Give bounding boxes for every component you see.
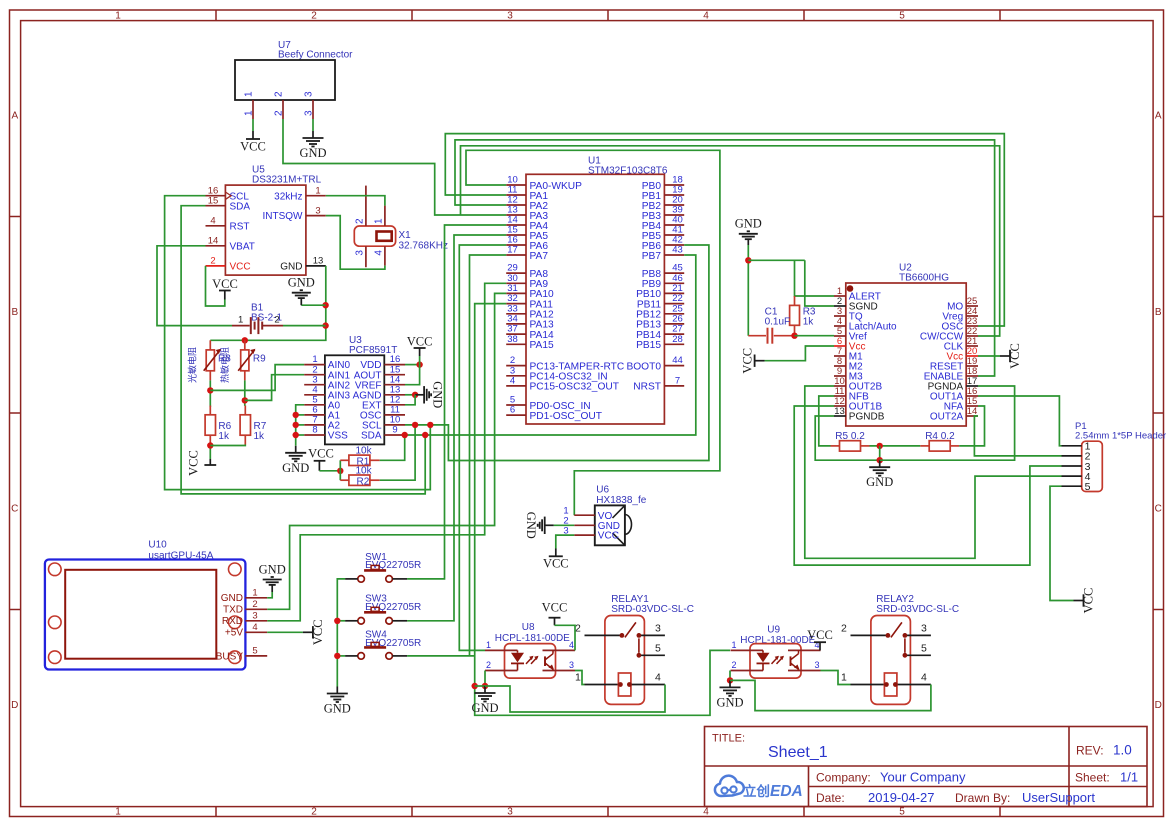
wire U2 ALERT up (795, 260, 835, 296)
svg-text:VCC: VCC (542, 600, 568, 614)
pin 19 RESET of U2 (966, 365, 978, 367)
pin 2 SGND of U2 (834, 305, 846, 307)
contact lever of RELAY2 (886, 633, 891, 638)
wire R2 right to SCL row (380, 425, 415, 480)
pin 42 PB6 of U1 (664, 244, 684, 246)
svg-text:3: 3 (507, 807, 513, 818)
pin 17 PA7 of U1 (506, 254, 526, 256)
arrow of R8 (204, 350, 221, 371)
wire PGNDB to GND node (815, 416, 880, 460)
wire U6 VCC to flag (556, 535, 575, 548)
wire U8 pin2 to GND (484, 671, 486, 687)
wire U3 SCL to U1 PB6 (405, 245, 709, 461)
lens arc of U6 (625, 515, 632, 535)
svg-text:44: 44 (672, 355, 683, 366)
pin 13 GND of U5 (306, 265, 326, 267)
switch SW3 EVQ22705R (358, 618, 365, 625)
svg-text:2: 2 (274, 91, 285, 97)
corner mark bottom of U6 (613, 533, 625, 545)
pin 3 TQ of U2 (834, 315, 846, 317)
junction R5-R4 gnd (877, 443, 883, 449)
LED of U9 (762, 650, 764, 652)
svg-text:1: 1 (575, 672, 581, 684)
net flag VCC at U5 pin2 (224, 291, 226, 300)
wire U1 PA0 to U6 VO (466, 150, 720, 515)
pin1 dot of U2 (847, 285, 854, 292)
pin 5 of RELAY1 (639, 654, 665, 656)
svg-text:VCC: VCC (212, 277, 238, 291)
net flag VCC at U7 pin1 (252, 131, 254, 139)
pin 11 PA1 of U1 (506, 194, 526, 196)
light arrows of U9 (772, 657, 779, 664)
wire U2 SGND up (805, 260, 834, 306)
svg-text:SRD-03VDC-SL-C: SRD-03VDC-SL-C (611, 604, 694, 615)
pin 5 BUSY of U10 (245, 655, 267, 657)
svg-text:VCC: VCC (1008, 343, 1022, 369)
wire gnd row to SGND (748, 259, 805, 261)
svg-text:13: 13 (834, 406, 845, 417)
net flag GND under U9 (729, 680, 731, 687)
svg-text:2: 2 (274, 110, 285, 116)
svg-text:Sheet:: Sheet: (1075, 771, 1110, 785)
net flag GND at U6 (545, 524, 554, 526)
svg-text:VCC: VCC (1082, 588, 1096, 614)
pin 19 PB1 of U1 (664, 194, 684, 196)
svg-text:Sheet_1: Sheet_1 (768, 744, 828, 761)
svg-text:3: 3 (355, 250, 366, 256)
battery B1 (232, 325, 250, 327)
pin 1 32kHz of U5 (306, 195, 326, 197)
svg-text:17: 17 (507, 245, 518, 256)
pin 3 PC14-OSC32_IN of U1 (506, 375, 526, 377)
pin 24 Vreg of U2 (966, 315, 978, 317)
svg-text:3: 3 (507, 10, 513, 21)
wire U9 pin3 to relay2 pin1 (821, 671, 851, 685)
light arrows of U8 (526, 657, 533, 664)
pin 18 PB0 of U1 (664, 184, 684, 186)
wire R9 bottom node (244, 380, 246, 405)
wire U5 32kHz to X1 pin1 (326, 196, 385, 206)
svg-text:2: 2 (311, 10, 317, 21)
svg-text:RXD: RXD (222, 616, 243, 627)
mounting hole of U10 (229, 651, 242, 664)
svg-text:GND: GND (280, 262, 302, 273)
resistor R3 (794, 296, 796, 305)
pin 3 AIN2 of U3 (304, 384, 325, 386)
svg-text:HCPL-181-00DE: HCPL-181-00DE (495, 633, 570, 644)
net flag GND under U3 (295, 446, 297, 453)
switch SW4 EVQ22705R (358, 653, 365, 660)
optocoupler U9 HCPL-181-00DE (750, 644, 801, 679)
pin 3 VCC of U6 (574, 534, 595, 536)
pin 41 PB5 of U1 (664, 234, 684, 236)
svg-text:GND: GND (259, 563, 286, 577)
wire gnd node down (879, 446, 881, 460)
pin 6 Vcc of U2 (834, 345, 846, 347)
pin 1 of RELAY2 (851, 684, 931, 686)
svg-text:PGNDB: PGNDB (849, 412, 885, 423)
svg-text:5: 5 (899, 807, 905, 818)
svg-text:5: 5 (1085, 481, 1091, 493)
junction SW4 gnd (334, 653, 340, 659)
svg-text:43: 43 (672, 245, 683, 256)
svg-text:2: 2 (252, 599, 257, 610)
svg-text:28: 28 (672, 334, 683, 345)
pin 3 INTSQW of U5 (306, 215, 326, 217)
svg-text:PA7: PA7 (530, 251, 549, 262)
wire SW4 to relay2 opto net (407, 655, 475, 657)
svg-text:EDA: EDA (770, 783, 803, 800)
relay RELAY2 SRD-03VDC-SL-C (871, 616, 911, 705)
svg-text:1/1: 1/1 (1120, 770, 1138, 785)
svg-text:C: C (1155, 504, 1162, 515)
pin 34 PA13 of U1 (506, 323, 526, 325)
wire U1 PA10 to U10 TXD (267, 293, 506, 609)
svg-text:32kHz: 32kHz (274, 191, 302, 202)
svg-text:2: 2 (731, 660, 736, 670)
svg-text:GND: GND (524, 512, 538, 539)
svg-text:SDA: SDA (361, 431, 382, 442)
wire U10 +5V to VCC (267, 631, 303, 633)
pin 21 CLK of U2 (966, 345, 978, 347)
pin 14 PA4 of U1 (506, 224, 526, 226)
svg-text:VCC: VCC (230, 262, 251, 273)
pin 1 VO of U6 (574, 514, 595, 516)
wire U2 OUT1A to P1 pin1 (978, 396, 1062, 446)
svg-text:VCC: VCC (308, 447, 334, 461)
wire U5 VBAT to B1 pin1 (157, 246, 232, 326)
pin 14 VREF of U3 (384, 384, 405, 386)
pin 13 AGND of U3 (384, 394, 405, 396)
pin 3 of X1 (365, 246, 367, 267)
junction R8-R6 node (207, 387, 213, 393)
svg-text:2: 2 (355, 218, 366, 224)
resistor R7 (244, 406, 246, 415)
coil of RELAY2 (884, 673, 897, 696)
pin 12 PA2 of U1 (506, 204, 526, 206)
pin 8 M2 of U2 (834, 365, 846, 367)
pin 1 of RELAY1 (585, 684, 665, 686)
svg-text:U10: U10 (148, 540, 167, 551)
svg-text:GND: GND (716, 695, 743, 709)
pin 22 PB11 of U1 (664, 303, 684, 305)
pin 30 PA9 of U1 (506, 282, 526, 284)
svg-text:VCC: VCC (407, 335, 433, 349)
pin 26 PB13 of U1 (664, 323, 684, 325)
pin 12 EXT of U3 (384, 404, 405, 406)
svg-text:5: 5 (252, 646, 257, 657)
junction ALERT-SGND gnd (745, 257, 751, 263)
svg-text:VBAT: VBAT (230, 241, 255, 252)
resistor R5 (831, 445, 840, 447)
pin 11 NFB of U2 (834, 395, 846, 397)
wire U2 Vcc pin6 to VCC flag (765, 346, 834, 361)
svg-text:7: 7 (675, 376, 680, 387)
svg-text:PB7: PB7 (642, 251, 662, 262)
resistor R2 (340, 479, 349, 481)
pin 10 OUT2B of U2 (834, 385, 846, 387)
pin 15 PA5 of U1 (506, 234, 526, 236)
connector U7 (235, 60, 335, 100)
junction R9-R7 node (242, 397, 248, 403)
IR receiver U6 HX1838_fe (595, 505, 625, 545)
pin 37 PA14 of U1 (506, 333, 526, 335)
svg-text:10k: 10k (356, 465, 373, 476)
wire P1 pin5 to VCC (1050, 486, 1074, 600)
pin 2 AIN1 of U3 (304, 374, 325, 376)
pin 7 M1 of U2 (834, 355, 846, 357)
wire gnd link U8 (475, 685, 485, 687)
wire switch gnd chain (337, 579, 345, 687)
wire U3 VREF to VDD node (405, 365, 420, 385)
svg-text:立创: 立创 (743, 783, 770, 799)
pin 4 AIN3 of U3 (304, 394, 325, 396)
pin 2 of RELAY1 (585, 634, 622, 636)
wire U7 pin1 to VCC (252, 119, 254, 131)
wire R8 bottom node (209, 380, 211, 407)
junction A1 (293, 412, 299, 418)
junction gnd below R5 (877, 457, 883, 463)
wire U8 gnd to relay1 pin4 (485, 685, 665, 713)
driver U2 TB6600HG (846, 283, 966, 426)
svg-text:Company:: Company: (816, 771, 871, 785)
pin 3 of P1 (1062, 465, 1082, 467)
svg-text:4: 4 (374, 250, 385, 256)
pin 25 MO of U2 (966, 305, 978, 307)
pin 1 ALERT of U2 (834, 295, 846, 297)
svg-text:4: 4 (921, 672, 927, 684)
svg-text:RST: RST (230, 221, 250, 232)
net flag VCC under U6 (555, 549, 557, 557)
svg-text:VCC: VCC (598, 531, 619, 542)
junction Vref node (791, 333, 797, 339)
pin 31 PA10 of U1 (506, 292, 526, 294)
svg-text:OUT2A: OUT2A (930, 412, 964, 423)
pin 40 PB4 of U1 (664, 224, 684, 226)
pin 16 VDD of U3 (384, 364, 405, 366)
pin 4 of U8 (543, 649, 576, 651)
net flag GND under U8 (484, 686, 486, 693)
svg-text:D: D (11, 700, 18, 711)
svg-text:1: 1 (486, 640, 491, 650)
resistor R4 (920, 445, 929, 447)
svg-text:0.1uF: 0.1uF (765, 317, 791, 328)
pin 1 of U9 (731, 649, 764, 651)
svg-text:GND: GND (299, 146, 326, 160)
svg-text:2019-04-27: 2019-04-27 (868, 790, 935, 805)
svg-text:GND: GND (735, 216, 762, 230)
svg-text:9: 9 (392, 425, 397, 436)
svg-text:14: 14 (208, 236, 219, 247)
svg-text:INTSQW: INTSQW (263, 211, 304, 222)
LED of U8 (517, 650, 519, 652)
svg-text:GND: GND (866, 475, 893, 489)
pin 9 M3 of U2 (834, 375, 846, 377)
svg-text:1: 1 (238, 314, 243, 325)
wire U3 EXT to AGND node (405, 395, 415, 405)
net flag GND under U2 (879, 460, 881, 467)
svg-text:4: 4 (210, 216, 215, 227)
wire Vref node to pin5 (795, 335, 835, 337)
wire U9 gnd to relay2 pin4 (730, 680, 931, 710)
pin 46 PB9 of U1 (664, 282, 684, 284)
svg-text:3: 3 (569, 660, 574, 670)
pin 14 OUT2A of U2 (966, 415, 978, 417)
pin 4 RST of U5 (206, 225, 226, 227)
pin 8 VSS of U3 (304, 434, 325, 436)
wire U1 PA2 to U2 ENABLE (455, 140, 995, 376)
pin 18 ENABLE of U2 (966, 375, 978, 377)
pin 6 A1 of U3 (304, 414, 325, 416)
pin 16 PA6 of U1 (506, 244, 526, 246)
pin 3 of U8 (543, 670, 576, 672)
pin 21 PB10 of U1 (664, 292, 684, 294)
resistor R6 (209, 406, 211, 415)
junction SDA 1 (402, 432, 408, 438)
svg-text:R2: R2 (357, 476, 370, 487)
svg-text:3: 3 (921, 622, 927, 634)
svg-text:BUSY: BUSY (216, 651, 244, 662)
thermistor R9 (244, 340, 246, 350)
pin 1 of U7 (252, 100, 254, 119)
pin 16 SCL of U5 (206, 195, 226, 197)
wire U2 NFA to R4 right (959, 406, 984, 446)
relay RELAY1 SRD-03VDC-SL-C (605, 616, 645, 705)
pin 1 of P1 (1062, 445, 1082, 447)
svg-text:5: 5 (921, 642, 927, 654)
svg-text:PB15: PB15 (636, 340, 661, 351)
net flag GND under switches (336, 687, 338, 694)
wire R6 bottom to VCC (209, 445, 211, 460)
pin 2 of RELAY2 (851, 634, 888, 636)
mounting hole of U10 (229, 616, 242, 629)
pin 6 PD1-OSC_OUT of U1 (506, 414, 526, 416)
svg-text:2: 2 (486, 660, 491, 670)
MCU U1 STM32F103C8T6 (526, 174, 664, 424)
svg-text:GND: GND (282, 461, 309, 475)
wire U5 VCC to flag (206, 266, 225, 306)
wire U1 PA7 to SW4 row (470, 255, 507, 656)
pin 32 PA11 of U1 (506, 303, 526, 305)
svg-text:VCC: VCC (187, 450, 201, 476)
pin 3 of RELAY2 (905, 634, 931, 636)
mounting hole of U10 (49, 651, 62, 664)
svg-text:A: A (11, 111, 18, 122)
pin 1 GND of U10 (245, 597, 267, 599)
svg-text:1: 1 (252, 587, 257, 598)
junction VDD node (416, 361, 422, 367)
wire U3 SDA to U1 PB7 (405, 255, 696, 435)
svg-text:1: 1 (115, 10, 121, 21)
svg-text:4: 4 (655, 672, 661, 684)
svg-text:GND: GND (324, 702, 351, 716)
svg-text:DS3231M+TRL: DS3231M+TRL (252, 174, 322, 185)
wire U1 PA6 to U8 pin1 (459, 245, 506, 650)
pin 12 OUT1B of U2 (834, 405, 846, 407)
svg-text:1k: 1k (218, 431, 230, 442)
pin 2 of U9 (731, 670, 764, 672)
svg-text:1: 1 (115, 807, 121, 818)
svg-text:3: 3 (304, 110, 315, 116)
svg-text:GND: GND (431, 381, 445, 408)
pin 2 GND of U6 (574, 524, 595, 526)
pin 2 TXD of U10 (245, 608, 267, 610)
wire U5 SDA net (181, 206, 425, 494)
wire U5 INTSQW to X1 pin4 (326, 216, 385, 270)
svg-text:13: 13 (313, 256, 324, 267)
wire R9 node to U3 AIN1 (245, 375, 304, 401)
svg-text:4: 4 (703, 10, 709, 21)
svg-text:TITLE:: TITLE: (712, 733, 745, 745)
junction SDA 2 (422, 432, 428, 438)
mounting hole of U10 (49, 616, 62, 629)
junction at GND branch (322, 302, 328, 308)
svg-text:1: 1 (374, 218, 385, 224)
svg-text:HX1838_fe: HX1838_fe (596, 495, 646, 506)
pin 4 Latch/Auto of U2 (834, 325, 846, 327)
junction R6-R7 bottom (207, 442, 213, 448)
resistor R1 (340, 459, 349, 461)
photoresistor R8 (209, 340, 211, 350)
svg-text:Beefy Connector: Beefy Connector (278, 50, 353, 61)
net flag VCC left of U2 (755, 360, 765, 362)
svg-text:U9: U9 (767, 624, 780, 635)
svg-text:NRST: NRST (633, 382, 661, 393)
svg-text:4: 4 (252, 622, 257, 633)
pin 1 AIN0 of U3 (304, 364, 325, 366)
pin 4 of X1 (384, 246, 386, 265)
pin 1 of X1 (384, 206, 386, 226)
pin 45 PB8 of U1 (664, 272, 684, 274)
wire U2 OUT1B to P1 pin3 (794, 406, 1061, 565)
junction SCL 1 (412, 422, 418, 428)
pin 5 of P1 (1062, 485, 1082, 487)
junction VSS (293, 432, 299, 438)
net flag VCC at U10 (303, 631, 313, 633)
title block (705, 727, 1148, 807)
wire U2 OUT2B to P1 pin4 (805, 386, 1062, 558)
svg-text:U8: U8 (522, 622, 535, 633)
crystal X1 body (354, 226, 395, 246)
svg-text:2: 2 (210, 256, 215, 267)
svg-text:2: 2 (311, 807, 317, 818)
wire U2 Vcc pin20 to VCC flag (978, 355, 1000, 357)
svg-text:1: 1 (244, 91, 255, 97)
net flag VCC above U3 (419, 356, 421, 365)
display U10 screen (65, 570, 216, 659)
pin 22 CW/CCW of U2 (966, 335, 978, 337)
pin 29 PA8 of U1 (506, 272, 526, 274)
svg-text:UserSupport: UserSupport (1022, 790, 1095, 805)
corner mark top of U6 (613, 505, 625, 518)
svg-text:PD1-OSC_OUT: PD1-OSC_OUT (530, 411, 602, 422)
wire VCC to U8 pin4 (555, 625, 576, 650)
svg-text:PA15: PA15 (530, 340, 554, 351)
pin 2 of P1 (1062, 455, 1082, 457)
wire R8 node to U3 AIN0 (210, 365, 304, 391)
junction AGND node (412, 392, 418, 398)
svg-text:C: C (11, 504, 18, 515)
wire U1 PA9 to U10 RXD (267, 283, 506, 621)
phototransistor of U9 (790, 656, 792, 666)
pin 15 AOUT of U3 (384, 374, 405, 376)
net flag GND at U7 pin3 (312, 131, 314, 138)
svg-text:TB6600HG: TB6600HG (899, 273, 949, 284)
svg-text:1k: 1k (254, 431, 266, 442)
junction U8 gnd (482, 683, 488, 689)
svg-text:D: D (1155, 700, 1162, 711)
junction R1-R2 left (337, 468, 343, 474)
